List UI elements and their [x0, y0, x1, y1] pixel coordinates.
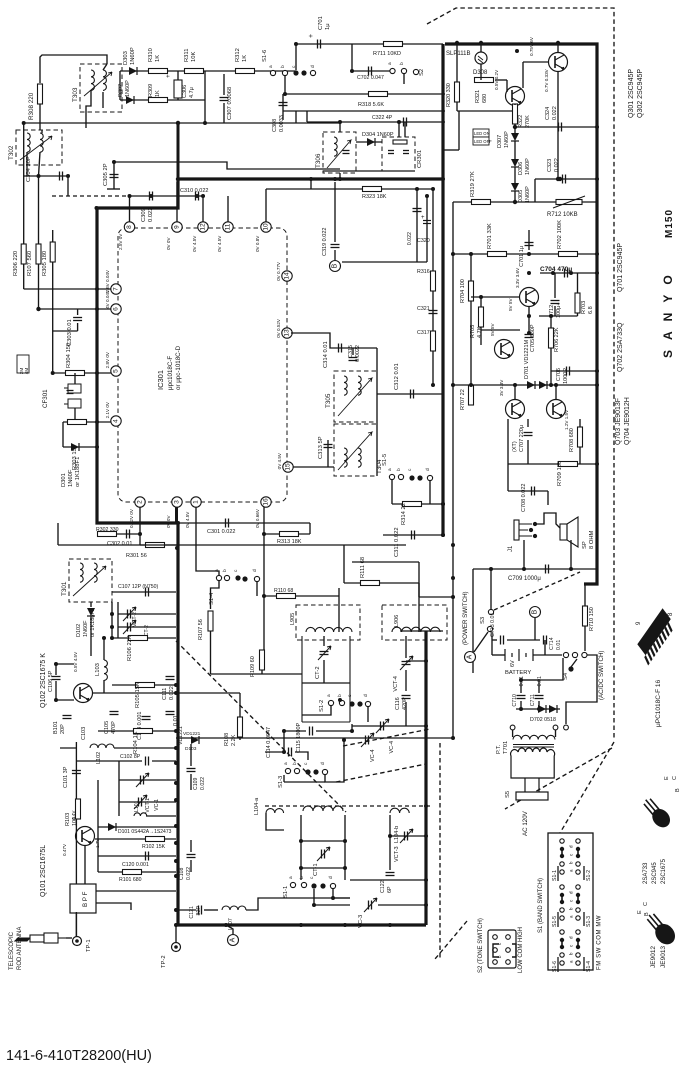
switch S2 tone switch box [488, 930, 516, 968]
transformer T305 secondary [358, 376, 361, 395]
junction [174, 841, 178, 845]
svg-text:C308: C308 [272, 119, 278, 132]
resistor R316 22K [431, 271, 436, 291]
junction [537, 707, 541, 711]
svg-text:VC-4: VC-4 [389, 741, 395, 754]
wire [491, 632, 493, 655]
junction [350, 729, 354, 733]
svg-text:8: 8 [126, 225, 133, 229]
junction [388, 923, 392, 927]
junction [95, 307, 99, 311]
wire [60, 747, 76, 749]
wire [284, 76, 286, 94]
switch S4 contacts [563, 652, 568, 657]
svg-text:1N60P: 1N60P [525, 158, 531, 175]
wire [534, 618, 536, 640]
junction [451, 595, 455, 599]
filter CF301 [64, 384, 81, 408]
junction [102, 636, 106, 640]
svg-text:+: + [165, 74, 172, 78]
wire [404, 122, 406, 137]
wire [96, 890, 176, 892]
IC pin 4 [111, 416, 121, 426]
wire [210, 631, 212, 674]
svg-text:C709 1000μ: C709 1000μ [508, 576, 541, 582]
resistor R104 1K [134, 729, 153, 734]
junction [554, 383, 558, 387]
wire [398, 122, 400, 137]
capacitor C324 0.022 [559, 123, 562, 132]
wire [584, 626, 586, 651]
svg-text:Q102 2SC1675 K: Q102 2SC1675 K [40, 653, 47, 708]
wire [515, 126, 597, 128]
wire [523, 540, 525, 569]
wire dashed diagonal L104 lower [336, 764, 426, 782]
wire [204, 71, 206, 123]
wire [119, 71, 121, 100]
svg-text:C303 0.01: C303 0.01 [67, 319, 73, 346]
svg-text:C711: C711 [530, 694, 536, 706]
svg-text:S4: S4 [563, 672, 569, 680]
capacitor C702 0.047 [369, 67, 372, 76]
wire [350, 879, 426, 881]
wire thick ground loop [97, 179, 426, 925]
capacitor C316 [67, 391, 74, 394]
resistor R309 1K [149, 98, 168, 103]
wire [351, 724, 353, 731]
wire [190, 744, 192, 766]
svg-text:VCT-4: VCT-4 [393, 676, 399, 692]
wire [577, 313, 579, 316]
wire diode rail [453, 384, 597, 386]
svg-text:C305 2P: C305 2P [103, 163, 109, 186]
wire [480, 43, 482, 52]
svg-text:Q101 2SC1675L: Q101 2SC1675L [40, 845, 47, 897]
junction [299, 923, 303, 927]
svg-text:R102 15K: R102 15K [142, 844, 166, 850]
resistor R102 15K [146, 837, 165, 842]
wire [152, 760, 176, 762]
wire [514, 385, 516, 399]
plug stem S5 [525, 778, 539, 792]
wire [323, 660, 325, 683]
svg-text:C102 8P: C102 8P [120, 754, 141, 760]
svg-text:R707 22: R707 22 [460, 389, 466, 410]
svg-text:S1-2: S1-2 [586, 870, 592, 881]
wire long bottom rail [176, 737, 453, 739]
svg-text:0.75V 6V: 0.75V 6V [529, 36, 534, 56]
svg-text:(AC/DC SWITCH): (AC/DC SWITCH) [598, 651, 605, 701]
svg-text:R322: R322 [518, 115, 524, 128]
svg-text:Q704 JE9012H: Q704 JE9012H [624, 397, 631, 445]
junction [309, 177, 313, 181]
svg-text:S1-3: S1-3 [278, 776, 284, 788]
wire [405, 670, 407, 691]
svg-text:IC301: IC301 [156, 370, 165, 390]
junction [22, 121, 26, 125]
capacitor C122 6P [386, 873, 395, 876]
wire [325, 740, 344, 782]
capacitor C319 0.022 [331, 245, 340, 248]
svg-text:4.7μ: 4.7μ [189, 87, 195, 98]
junction [350, 69, 354, 73]
tuning arrow T302 [20, 136, 52, 160]
wire [343, 545, 345, 583]
svg-text:C114 0.0047: C114 0.0047 [266, 727, 272, 758]
junction [95, 206, 99, 210]
svg-text:C324: C324 [545, 107, 551, 120]
wire [507, 639, 540, 641]
wire [579, 419, 581, 427]
svg-text:P.T.: P.T. [496, 744, 502, 754]
svg-text:R316: R316 [417, 269, 430, 275]
svg-text:b: b [280, 65, 286, 68]
svg-text:0V 4.5V: 0V 4.5V [277, 452, 282, 469]
wire [55, 664, 57, 675]
junction [489, 567, 493, 571]
svg-text:D304 1N60P: D304 1N60P [362, 132, 394, 138]
transformer T302 secondary [40, 133, 43, 152]
capacitor C313 5P [324, 445, 333, 448]
svg-text:L905: L905 [290, 613, 296, 625]
resistor R303 150 [68, 420, 87, 425]
svg-text:a: a [289, 876, 294, 879]
wire [98, 826, 176, 828]
wire [458, 111, 460, 150]
junction [431, 383, 435, 387]
svg-text:L104-b: L104-b [394, 826, 400, 843]
wire [74, 408, 76, 422]
svg-text:R108: R108 [224, 733, 230, 746]
IC pin 5 [111, 366, 121, 376]
wire to pin9 [176, 182, 178, 222]
wire left rail [23, 123, 25, 289]
svg-text:FM SW COM MW: FM SW COM MW [597, 915, 603, 970]
wire C107 rail [112, 591, 176, 593]
wire R102 rail [95, 838, 176, 840]
svg-text:R321: R321 [475, 90, 481, 103]
wire Q301 emitter down [557, 71, 559, 179]
svg-text:d: d [363, 694, 369, 697]
wire [284, 781, 325, 783]
capacitor C315 0.0022 [349, 358, 358, 361]
wire [119, 779, 176, 781]
svg-text:(POWER SWITCH): (POWER SWITCH) [462, 591, 469, 645]
wire emitter rail [539, 315, 578, 317]
node B mid [330, 261, 341, 272]
svg-text:a: a [327, 694, 332, 697]
wire C312 rail [377, 393, 443, 395]
svg-text:10K: 10K [191, 52, 197, 62]
wire [512, 730, 514, 737]
resistor R324 [393, 140, 407, 144]
wire [77, 323, 79, 331]
IC pin 16 [261, 497, 271, 507]
trimmer CT-2 [320, 652, 329, 655]
svg-text:15: 15 [285, 463, 292, 471]
svg-text:a: a [269, 65, 274, 68]
transistor Q101 [76, 827, 95, 846]
svg-text:μpc1018C-F: μpc1018C-F [167, 356, 174, 390]
capacitor C710 0.01 [517, 696, 526, 699]
wire [41, 130, 43, 133]
capacitor C106 5P [52, 677, 61, 680]
wire pin15 [293, 466, 334, 468]
wire [480, 297, 482, 307]
wire [391, 480, 393, 504]
wire dashed board outline top-right [427, 8, 614, 418]
svg-text:M150: M150 [664, 209, 675, 238]
wire [146, 815, 176, 817]
svg-text:0V 0V: 0V 0V [166, 515, 171, 528]
switch S2 contacts [390, 68, 395, 73]
wire pin13 to C314 [291, 333, 377, 348]
svg-text:C: C [643, 902, 649, 906]
capacitor CR301 a [388, 151, 394, 154]
capacitor C301 0.022 [226, 519, 229, 528]
transformer T303 secondary [103, 70, 106, 90]
svg-text:470P: 470P [111, 721, 117, 734]
junction [424, 903, 428, 907]
junction [451, 252, 455, 256]
svg-text:C705 680P: C705 680P [530, 324, 536, 352]
resistor R710 150 [583, 606, 588, 626]
wire [63, 446, 96, 448]
svg-text:0.5V 0.2V: 0.5V 0.2V [494, 69, 499, 90]
terminal TP-1 [73, 937, 82, 946]
wire [334, 250, 336, 260]
wire [535, 178, 597, 180]
wire [378, 904, 426, 906]
svg-text:R111 68: R111 68 [360, 557, 366, 578]
wire [90, 602, 92, 607]
transformer T701 secondary [513, 735, 555, 739]
wire CT-1 cage right [344, 815, 346, 880]
wire [457, 110, 515, 112]
svg-text:CF301: CF301 [42, 389, 49, 408]
svg-text:7: 7 [113, 287, 120, 291]
wire [55, 681, 57, 700]
svg-text:S1-1: S1-1 [552, 870, 558, 881]
capacitor C714 0.01 [544, 636, 547, 645]
transformer T302 box [16, 130, 62, 165]
resistor R314 22 [403, 502, 422, 507]
wire dashed S3 alternate [494, 572, 580, 610]
svg-text:4M: 4M [24, 368, 29, 375]
capacitor C110 0.01 [166, 712, 175, 715]
wire [295, 111, 297, 123]
svg-text:R101 680: R101 680 [119, 877, 142, 883]
wire [97, 780, 99, 872]
junction [431, 187, 435, 191]
transistor pictogram TO-92 lower [642, 909, 679, 948]
svg-text:C315: C315 [348, 345, 354, 358]
wire [390, 835, 426, 837]
resistor R306 220 [21, 244, 26, 264]
junction [224, 923, 228, 927]
svg-text:C314 0.01: C314 0.01 [323, 341, 329, 368]
junction [551, 271, 555, 275]
wire node A lead [474, 632, 488, 652]
junction [425, 194, 429, 198]
IC pin 11 [223, 222, 233, 232]
wire [310, 179, 312, 189]
svg-text:0.01: 0.01 [537, 676, 543, 686]
transformer T305 box [334, 371, 377, 422]
svg-text:R104 1K: R104 1K [133, 731, 139, 754]
junction [595, 462, 599, 466]
transformer T303 box [80, 64, 122, 112]
svg-text:d: d [320, 762, 326, 765]
svg-text:1: 1 [193, 500, 200, 504]
svg-text:R106 22K: R106 22K [127, 635, 133, 661]
wire [527, 440, 529, 464]
svg-text:R306 220: R306 220 [13, 251, 19, 276]
capacitor C107 12P [146, 588, 149, 597]
wire [492, 654, 505, 656]
svg-text:L101: L101 [134, 800, 140, 812]
svg-text:S1 (BAND SWITCH): S1 (BAND SWITCH) [538, 878, 544, 933]
svg-text:d: d [252, 569, 258, 572]
tuning arrow T305 [338, 378, 372, 416]
svg-text:C306: C306 [182, 85, 188, 98]
wire [103, 680, 105, 693]
resistor R318 5.6K [369, 92, 388, 97]
diode D702 a [538, 705, 546, 713]
capacitor T306 internal [343, 151, 350, 154]
wire C322 rail [307, 121, 445, 123]
IC U301 dashed outline [118, 228, 287, 502]
junction [201, 194, 205, 198]
LED D308 [475, 52, 487, 64]
svg-text:CR301: CR301 [417, 150, 423, 168]
svg-text:μPC1018C-F 16: μPC1018C-F 16 [655, 680, 662, 727]
svg-text:or μpc-1018C-D: or μpc-1018C-D [175, 345, 182, 390]
diode D301 1N60F [71, 443, 79, 451]
junction [479, 295, 483, 299]
svg-text:S1-4: S1-4 [586, 961, 592, 972]
IC package pictogram uPC1018C-F [631, 608, 680, 665]
svg-text:C319 0.022: C319 0.022 [322, 228, 328, 256]
junction [515, 49, 519, 53]
svg-text:d: d [425, 468, 431, 471]
wire Q102 collector rail [93, 692, 240, 694]
capacitor C305 2P [110, 175, 119, 178]
wire [302, 706, 331, 715]
svg-text:D701 VD1221M: D701 VD1221M [524, 339, 530, 379]
resistor R310 1K [149, 69, 168, 74]
tuning arrow T301 [73, 566, 106, 596]
resistor R702 100K [559, 252, 578, 257]
switch S1-6/S1-4 contacts [560, 930, 564, 934]
wire R313 rail [264, 533, 310, 535]
wire [204, 909, 218, 911]
tuning arrow T306 [327, 140, 351, 168]
capacitor C312 0.01 [411, 390, 414, 399]
transformer T301 box [69, 559, 112, 602]
capacitor C317 33u [429, 311, 438, 314]
box LED ON/OFF legend [473, 129, 489, 137]
terminal TP-2 [172, 943, 181, 952]
wire [520, 701, 522, 709]
svg-text:C307 0.0068: C307 0.0068 [227, 87, 233, 120]
capacitor C307 0.0068 [220, 98, 229, 101]
coil L103 [104, 660, 107, 680]
capacitor C105 470P [110, 712, 119, 715]
transistor Q704 [547, 400, 566, 419]
wire [419, 596, 453, 598]
wire S4 wiper [571, 659, 577, 667]
capacitor C309 0.022 [150, 192, 153, 201]
IC pin 9 [172, 222, 182, 232]
CT-2 cage [302, 636, 350, 722]
svg-text:VC-3: VC-3 [358, 915, 364, 928]
svg-text:5: 5 [113, 369, 120, 373]
svg-text:R302 330: R302 330 [96, 527, 119, 533]
switch S1-1/S1-2 contacts [560, 839, 564, 843]
capacitor C303 0.01 [73, 318, 82, 321]
wire detector bottom rail [120, 99, 205, 101]
svg-text:L107: L107 [228, 918, 234, 930]
svg-text:C103: C103 [81, 727, 87, 740]
wire C708 rail [508, 490, 548, 492]
svg-text:C714: C714 [549, 637, 555, 650]
wire Q301 base [523, 61, 549, 63]
junction [195, 194, 199, 198]
capacitor C109 0.022 [187, 769, 196, 772]
wire [334, 182, 336, 242]
junction [174, 683, 178, 687]
wire S4 to transformer [566, 655, 597, 724]
wire dashed tuning gang outline [439, 743, 441, 958]
wire top-left loop [40, 55, 107, 83]
svg-text:6: 6 [113, 307, 120, 311]
wire [480, 64, 482, 80]
wire [554, 273, 556, 298]
resistor R320 330 [455, 82, 460, 102]
svg-text:VC-1: VC-1 [154, 799, 160, 811]
wire thick right rail [445, 44, 597, 584]
junction [110, 612, 114, 616]
svg-text:C322 4P: C322 4P [372, 115, 393, 121]
wire [256, 582, 258, 596]
svg-text:C106 5P: C106 5P [48, 670, 54, 692]
diode D702 b [549, 705, 557, 713]
svg-text:T305: T305 [325, 393, 332, 408]
svg-text:a: a [388, 468, 393, 471]
junction [338, 120, 342, 124]
junction [149, 194, 153, 198]
svg-text:R708 680: R708 680 [569, 428, 575, 452]
wire to pin12 [202, 196, 204, 222]
svg-text:C710: C710 [512, 694, 518, 707]
transformer T701 primary body [511, 748, 555, 778]
svg-text:CT-1: CT-1 [313, 863, 319, 876]
svg-text:C101 3P: C101 3P [63, 766, 69, 788]
wire pin8 rail [130, 195, 205, 197]
wire dashed board outline right [613, 418, 615, 740]
svg-text:C105: C105 [104, 721, 110, 734]
junction [441, 502, 445, 506]
wire dashed diagonal L104 upper [343, 729, 430, 746]
wire R314 rail [392, 503, 443, 505]
variable capacitor VC-4b [366, 736, 369, 745]
svg-text:R701 33K: R701 33K [487, 223, 493, 249]
variable capacitor VCT-2 a [128, 610, 131, 619]
wire [570, 540, 572, 569]
svg-text:R702 100K: R702 100K [557, 220, 563, 249]
svg-text:1μ: 1μ [325, 23, 331, 30]
